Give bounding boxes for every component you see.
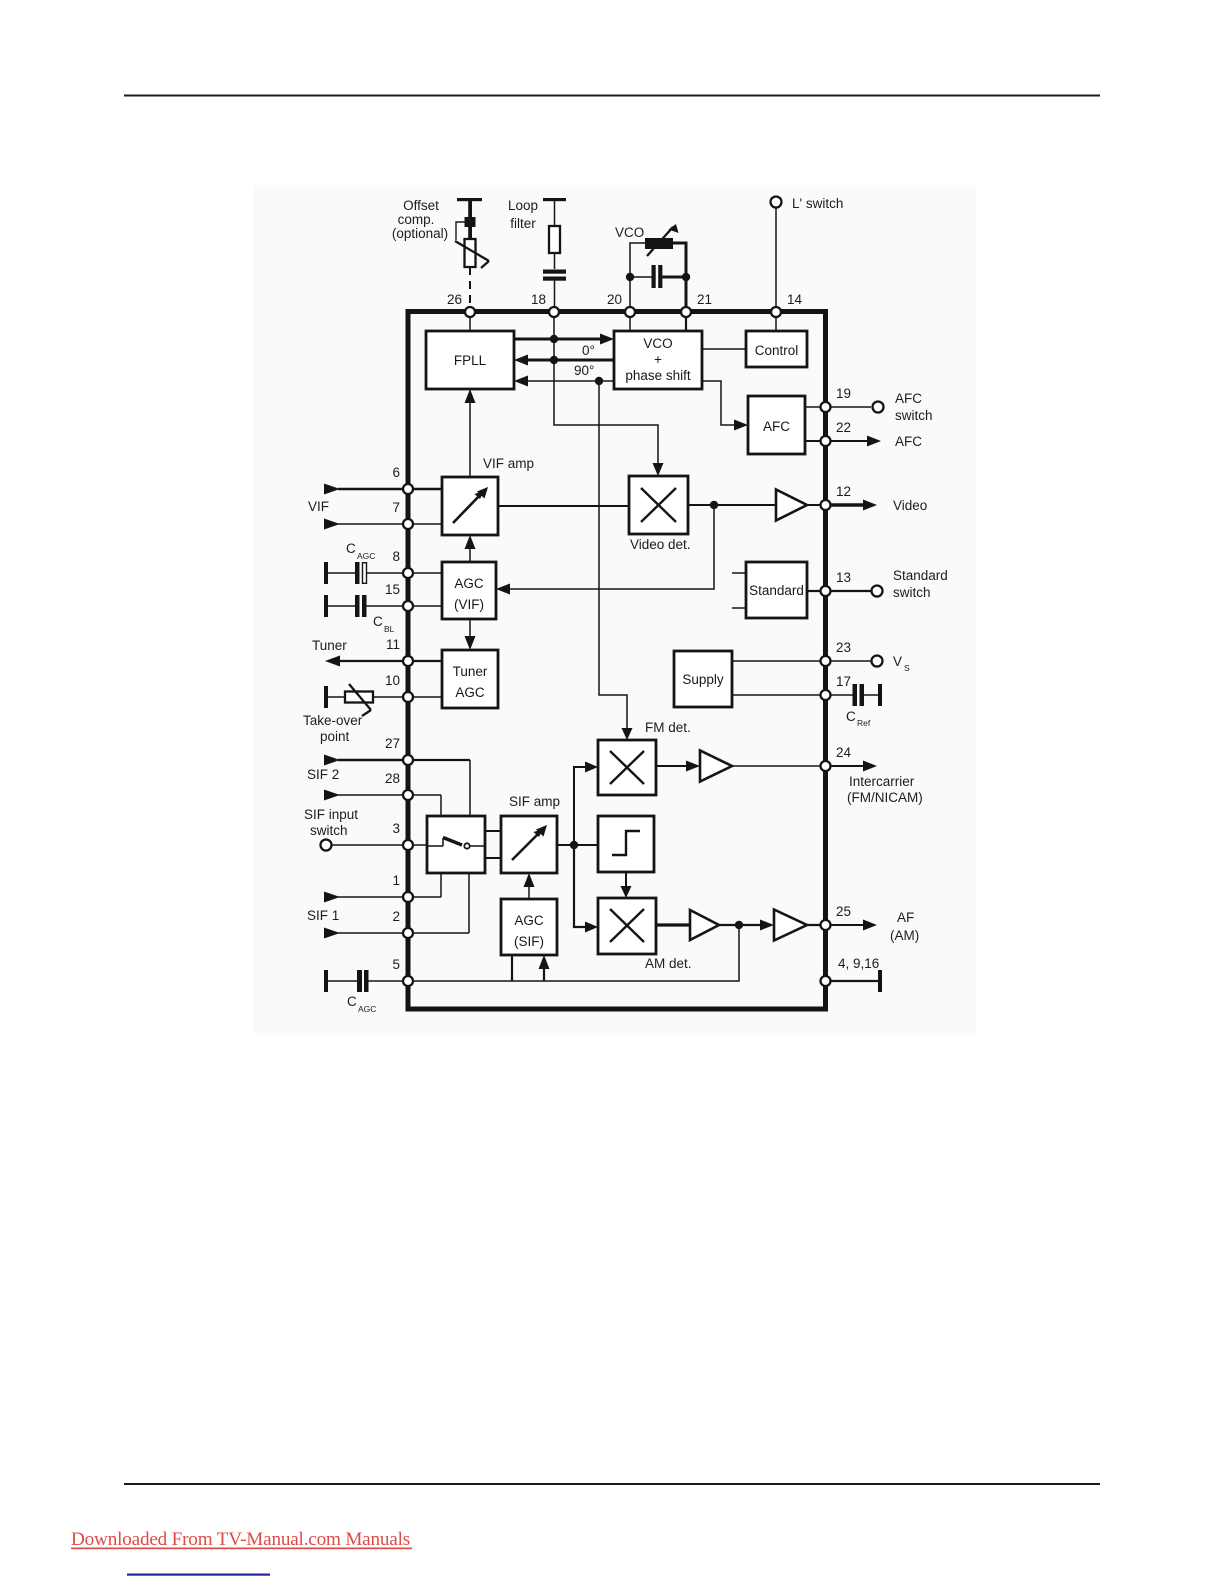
svg-text:AGC: AGC (357, 551, 375, 561)
svg-text:Tuner: Tuner (453, 664, 488, 679)
wire AGC(VIF) to VIF amp (465, 535, 476, 562)
svg-text:Supply: Supply (682, 672, 724, 687)
junction 90 deg (595, 377, 603, 385)
pin 1 (392, 873, 413, 902)
VCO + phase shift block U2 (614, 331, 702, 389)
FM det mixer U11 (598, 740, 656, 795)
svg-text:Take-over: Take-over (303, 713, 363, 728)
svg-text:VIF amp: VIF amp (483, 456, 534, 471)
footer link text (71, 1529, 412, 1550)
svg-text:SIF amp: SIF amp (509, 794, 560, 809)
junction tank right (682, 273, 690, 281)
svg-text:(FM/NICAM): (FM/NICAM) (847, 790, 923, 805)
svg-text:FM det.: FM det. (645, 720, 691, 735)
pin 27 (385, 736, 413, 765)
svg-text:(SIF): (SIF) (514, 934, 544, 949)
wire video amp to pin12 (807, 504, 825, 506)
wire pin11 tuner output (325, 656, 442, 667)
partial blue link underline (127, 1574, 270, 1576)
take-over point potentiometer R3 (324, 684, 442, 716)
wire standard to pin13 (807, 590, 871, 592)
L' switch terminal (771, 196, 844, 211)
capacitor C_AGC SIF (pin 5) (324, 970, 408, 992)
svg-text:BL: BL (384, 624, 395, 634)
svg-text:25: 25 (836, 904, 851, 919)
svg-text:C: C (347, 994, 357, 1009)
pin 8 (392, 549, 413, 578)
AM amplifier A3 (690, 910, 719, 940)
wire pin6 input (324, 484, 442, 495)
wire FM det output (656, 761, 700, 772)
Vs terminal (872, 654, 911, 673)
svg-text:filter: filter (510, 216, 536, 231)
svg-text:S: S (904, 663, 910, 673)
pin 28 (385, 771, 413, 800)
wire AGC feedback from video out (496, 505, 714, 595)
label C_AGC (346, 541, 375, 561)
video amplifier A1 (776, 490, 807, 521)
wire AGC(SIF) to SIF amp (524, 873, 535, 899)
SIF amp block U15 (501, 816, 557, 873)
limiter block U12 (598, 816, 654, 872)
pin 14 (771, 292, 803, 317)
pin 15 (385, 582, 413, 611)
wire VCO to FPLL (90 deg) (514, 376, 614, 387)
svg-text:27: 27 (385, 736, 400, 751)
wire pin18 vertical (553, 311, 555, 360)
svg-text:0°: 0° (582, 343, 595, 358)
wire pin28 input (324, 790, 441, 817)
pin 3 (392, 821, 413, 850)
svg-text:23: 23 (836, 640, 851, 655)
svg-text:(AM): (AM) (890, 928, 919, 943)
pin 12 (821, 484, 852, 510)
label SIF input switch (304, 807, 358, 838)
svg-text:6: 6 (392, 465, 400, 480)
svg-text:AFC: AFC (895, 391, 922, 406)
Standard block U9 (732, 562, 807, 618)
svg-text:comp.: comp. (398, 212, 435, 227)
FPLL block U1 (426, 331, 514, 389)
svg-text:28: 28 (385, 771, 400, 786)
svg-text:point: point (320, 729, 350, 744)
svg-text:21: 21 (697, 292, 712, 307)
svg-text:26: 26 (447, 292, 462, 307)
Standard switch terminal (872, 568, 948, 600)
pin 10 (385, 673, 413, 702)
pin 7 (392, 500, 413, 529)
svg-text:switch: switch (895, 408, 933, 423)
AM amplifier A4 (774, 910, 807, 941)
svg-text:8: 8 (392, 549, 400, 564)
svg-text:Control: Control (755, 343, 799, 358)
svg-text:14: 14 (787, 292, 803, 307)
pin 4,9,16 (821, 976, 831, 986)
svg-text:90°: 90° (574, 363, 594, 378)
wire SIF to AM det (574, 845, 598, 933)
wire pin21 to VCO block (685, 312, 687, 331)
supply bar (offset comp.) (457, 198, 482, 217)
svg-text:C: C (846, 709, 856, 724)
junction video out (710, 501, 718, 509)
header rule (124, 95, 1100, 97)
wire pin1 input (324, 873, 441, 903)
Supply block U10 (674, 651, 732, 707)
dashed wire to pin 26 (469, 267, 471, 309)
wire limiter to AM det (621, 872, 632, 898)
AFC block U4 (748, 396, 805, 454)
svg-text:AFC: AFC (895, 434, 922, 449)
svg-text:V: V (893, 654, 902, 669)
wire pin21 to tank (673, 243, 686, 309)
wire pin12 video output (828, 498, 927, 513)
capacitor C_BL (pin 15) (324, 595, 442, 617)
pin 23 (821, 640, 852, 666)
wire AM feedback to AGC(SIF) and pin5 (408, 925, 739, 981)
AGC (SIF) block U16 (501, 899, 557, 955)
junction SIF amp out (570, 841, 578, 849)
pin 21 (681, 292, 712, 317)
wire SIF amp output (557, 844, 598, 846)
capacitor C_AGC (pin 8) (324, 562, 442, 584)
svg-text:15: 15 (385, 582, 400, 597)
SIF input switch terminal (321, 840, 428, 851)
svg-text:VCO: VCO (643, 336, 672, 351)
switch to SIF amp links (485, 831, 501, 858)
svg-text:24: 24 (836, 745, 852, 760)
wire pin24 intercarrier output (828, 761, 923, 806)
VIF amp block U5 (442, 477, 498, 535)
svg-text:18: 18 (531, 292, 546, 307)
AM det mixer U13 (598, 898, 656, 954)
capacitor C_Ref (pin 17) (830, 684, 882, 706)
svg-text:Video: Video (893, 498, 927, 513)
wire AM amp to arrow (719, 920, 774, 931)
svg-text:19: 19 (836, 386, 851, 401)
svg-text:7: 7 (392, 500, 400, 515)
pin 2 (392, 909, 413, 938)
wire pin20 to VCO block (629, 312, 631, 331)
wire AM amp2 to pin25 (807, 924, 825, 926)
junction pin18 line2 (550, 356, 558, 364)
SIF input switch block U14 (427, 816, 485, 873)
wire VCO to AFC (702, 381, 748, 431)
label Loop filter (508, 198, 538, 231)
pin 18 (531, 292, 559, 317)
Control block U3 (746, 331, 807, 367)
loop filter capacitor C1 (543, 270, 566, 310)
svg-text:FPLL: FPLL (454, 353, 487, 368)
svg-text:C: C (373, 614, 383, 629)
wire pin2 input (324, 873, 469, 939)
wire video det output (688, 504, 776, 506)
svg-text:AGC: AGC (514, 913, 544, 928)
svg-text:Tuner: Tuner (312, 638, 347, 653)
svg-text:17: 17 (836, 674, 851, 689)
wire supply to pin23 (732, 660, 871, 662)
svg-text:(VIF): (VIF) (454, 597, 484, 612)
pin 5 (392, 957, 413, 986)
pin 24 (821, 745, 852, 771)
svg-text:10: 10 (385, 673, 400, 688)
supply bar (loop filter) (543, 198, 566, 226)
wire FM amp to pin24 (732, 765, 825, 767)
svg-text:AF: AF (897, 910, 914, 925)
FM amplifier A2 (700, 751, 732, 782)
svg-text:4, 9,16: 4, 9,16 (838, 956, 879, 971)
wire AFC to pin22 output (805, 434, 922, 449)
label Offset comp. (optional) (392, 198, 448, 241)
svg-text:AGC: AGC (454, 576, 484, 591)
svg-text:Video det.: Video det. (630, 537, 691, 552)
AGC (VIF) block U7 (442, 562, 496, 619)
svg-text:20: 20 (607, 292, 622, 307)
svg-text:C: C (346, 541, 356, 556)
wire pin26 to FPLL (469, 311, 471, 331)
pin 22 (821, 420, 852, 446)
wire L' switch to pin 14 (775, 208, 777, 309)
pin 19 (821, 386, 852, 412)
label C_BL (373, 614, 395, 634)
pin 11 (386, 637, 413, 666)
wire AGC(VIF) to Tuner AGC (465, 619, 476, 650)
svg-text:13: 13 (836, 570, 851, 585)
svg-text:Downloaded From TV-Manual.com: Downloaded From TV-Manual.com Manuals (71, 1529, 410, 1550)
svg-text:Standard: Standard (893, 568, 948, 583)
wire SIF to FM det (574, 762, 598, 846)
svg-text:1: 1 (392, 873, 400, 888)
svg-text:+: + (654, 352, 662, 367)
wire pin7 input (324, 519, 442, 530)
svg-text:AM det.: AM det. (645, 956, 692, 971)
wire VCO to Control (702, 348, 746, 350)
svg-text:SIF 2: SIF 2 (307, 767, 339, 782)
svg-text:L' switch: L' switch (792, 196, 843, 211)
wire AFC to pin19 / AFC switch (805, 406, 871, 408)
svg-text:12: 12 (836, 484, 851, 499)
wire VIF amp to video det (498, 505, 629, 507)
svg-text:AGC: AGC (455, 685, 485, 700)
wire 0deg to video det (554, 360, 664, 476)
VCO tuned inductor L1 (645, 224, 679, 256)
label Take-over point (303, 713, 363, 744)
wire VCO to FPLL (0 deg return) (514, 355, 614, 366)
label C_AGC (SIF) (347, 994, 376, 1014)
wire pin14 to Control (775, 311, 777, 331)
junction AM out (735, 921, 743, 929)
svg-text:SIF input: SIF input (304, 807, 358, 822)
svg-text:AFC: AFC (763, 419, 790, 434)
pin 26 (447, 292, 475, 317)
junction tank left (626, 273, 634, 281)
svg-text:Standard: Standard (749, 583, 804, 598)
IC outline (408, 312, 826, 1010)
svg-text:22: 22 (836, 420, 851, 435)
pin 6 (392, 465, 413, 494)
svg-text:VIF: VIF (308, 499, 329, 514)
wire pin20 to tank (630, 243, 645, 309)
wire FPLL to VCO 0 deg (514, 334, 614, 345)
loop filter resistor R2 (549, 226, 560, 269)
svg-text:Loop: Loop (508, 198, 538, 213)
pin 25 (821, 904, 852, 930)
pin 13 (821, 570, 852, 596)
svg-text:Offset: Offset (403, 198, 439, 213)
Tuner AGC block U8 (442, 650, 498, 708)
footer rule (124, 1483, 1100, 1485)
svg-text:2: 2 (392, 909, 400, 924)
wire AM det output (656, 923, 690, 926)
svg-text:3: 3 (392, 821, 400, 836)
wire VIF amp to FPLL (465, 389, 476, 477)
figure scan background (253, 185, 976, 1033)
svg-text:5: 5 (392, 957, 400, 972)
svg-text:Intercarrier: Intercarrier (849, 774, 915, 789)
svg-text:AGC: AGC (358, 1004, 376, 1014)
svg-text:SIF 1: SIF 1 (307, 908, 339, 923)
svg-text:switch: switch (310, 823, 348, 838)
wire pin25 AF output (828, 910, 919, 943)
svg-text:switch: switch (893, 585, 931, 600)
wire pin27 input (324, 755, 470, 817)
junction pin18 line1 (550, 335, 558, 343)
label C_Ref (846, 709, 871, 728)
svg-text:phase shift: phase shift (625, 368, 691, 383)
offset comp potentiometer R1 (455, 217, 489, 268)
VCO capacitor C2 (630, 265, 686, 288)
svg-text:11: 11 (386, 637, 400, 652)
svg-text:Ref: Ref (857, 718, 871, 728)
pin 20 (607, 292, 635, 317)
wire 90deg to FM det (599, 381, 633, 740)
Video det mixer U6 (629, 476, 688, 534)
wire pin 4,9,16 ground (830, 956, 882, 992)
wire supply to pin17 (732, 694, 825, 696)
svg-text:(optional): (optional) (392, 226, 448, 241)
AFC switch terminal (873, 391, 933, 423)
svg-text:VCO: VCO (615, 225, 644, 240)
pin 17 (821, 674, 852, 700)
